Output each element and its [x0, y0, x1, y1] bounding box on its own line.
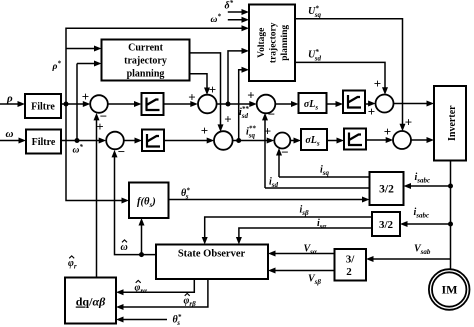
- svg-text:i**sd: i**sd: [239, 105, 249, 120]
- svg-text:+: +: [384, 124, 391, 139]
- svg-text:trajectory: trajectory: [269, 22, 279, 63]
- svg-text:ρ: ρ: [6, 93, 13, 105]
- svg-text:−: −: [281, 145, 288, 160]
- svg-text:+: +: [264, 124, 271, 139]
- svg-text:Voltage: Voltage: [257, 28, 267, 58]
- svg-text:Current: Current: [128, 43, 163, 54]
- svg-text:+: +: [82, 89, 89, 104]
- svg-text:ω: ω: [121, 242, 128, 253]
- svg-text:−: −: [268, 107, 275, 122]
- svg-text:trajectory: trajectory: [124, 56, 167, 67]
- svg-text:−: −: [118, 144, 125, 159]
- svg-text:+: +: [247, 88, 254, 103]
- svg-text:+: +: [374, 76, 381, 91]
- svg-text:+: +: [188, 90, 195, 105]
- svg-text:ω: ω: [6, 128, 14, 140]
- svg-text:IM: IM: [442, 283, 458, 297]
- svg-text:Filtre: Filtre: [31, 102, 55, 113]
- svg-text:+: +: [405, 115, 412, 130]
- svg-text:+: +: [224, 112, 231, 127]
- svg-text:dq/αβ: dq/αβ: [76, 295, 106, 309]
- svg-text:+: +: [209, 82, 216, 97]
- svg-text:i**sq: i**sq: [246, 125, 256, 140]
- svg-text:+: +: [96, 119, 103, 134]
- svg-text:2: 2: [346, 266, 352, 278]
- svg-text:planning: planning: [280, 25, 290, 61]
- svg-text:State Observer: State Observer: [178, 249, 246, 260]
- svg-text:planning: planning: [127, 69, 165, 80]
- svg-text:f(θs): f(θs): [137, 197, 156, 210]
- svg-text:+: +: [368, 104, 375, 119]
- svg-text:3/2: 3/2: [379, 219, 394, 231]
- svg-text:Filtre: Filtre: [32, 137, 56, 148]
- svg-text:3/: 3/: [346, 254, 356, 266]
- svg-text:Inverter: Inverter: [447, 105, 458, 141]
- svg-text:+: +: [201, 123, 208, 138]
- svg-text:3/2: 3/2: [379, 184, 394, 196]
